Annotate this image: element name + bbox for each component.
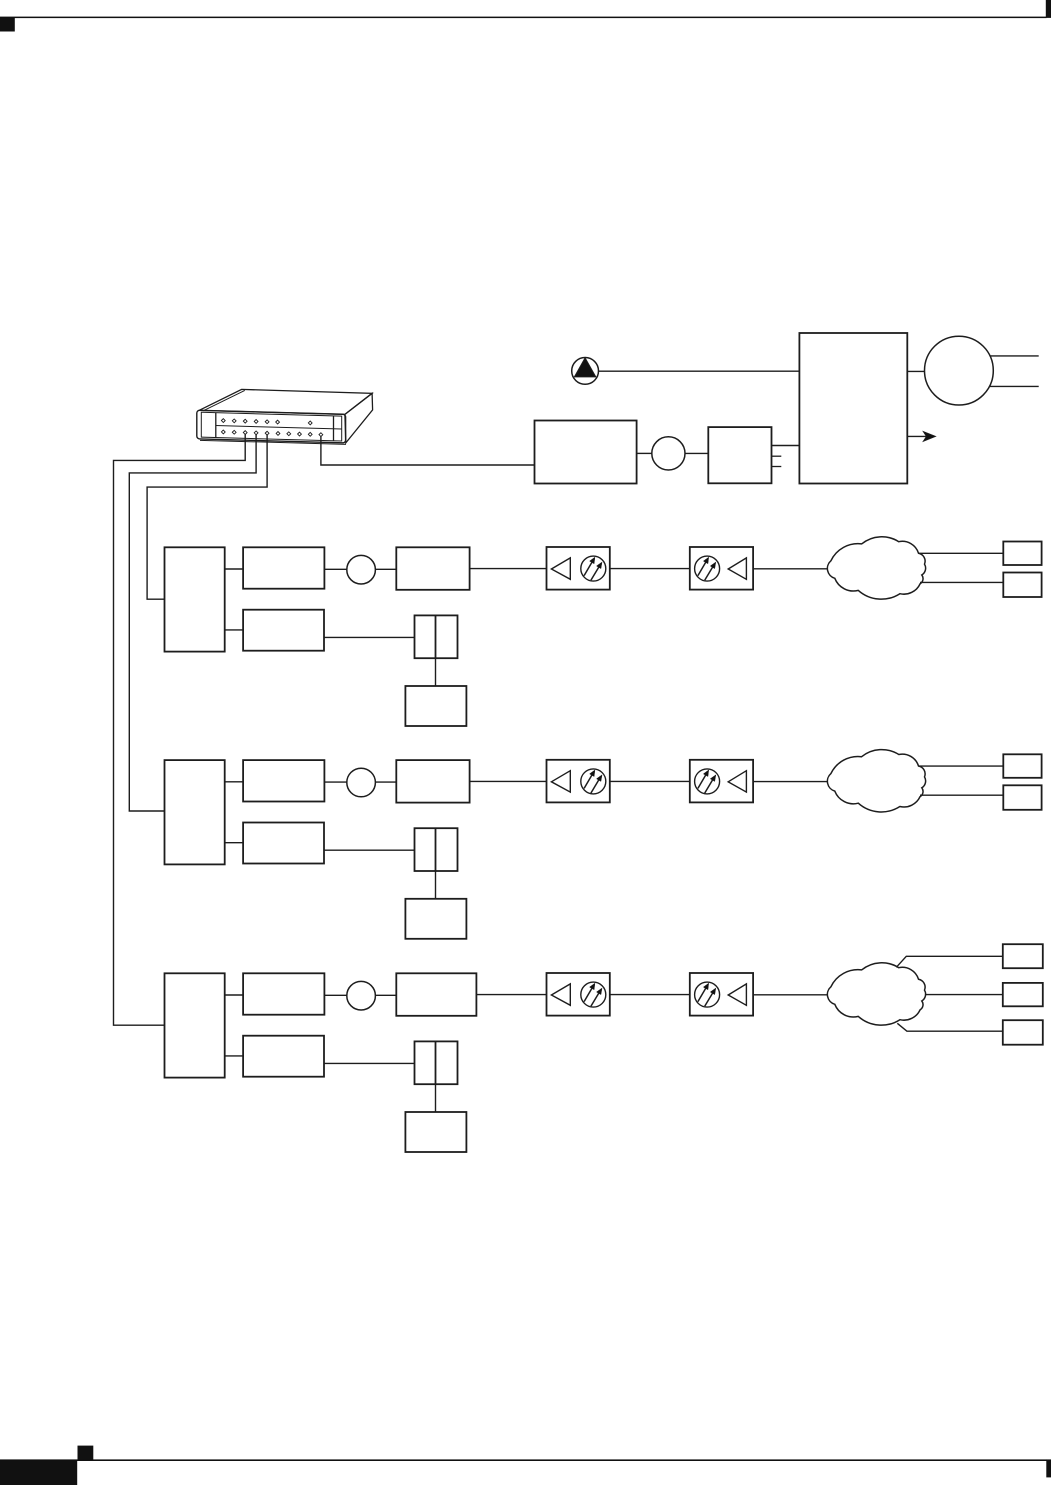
- device port diamond row1-2: [232, 419, 236, 423]
- row1 coax network cloud: [827, 537, 925, 599]
- splitter triangle: [728, 984, 746, 1005]
- device port diamond row2-6: [276, 432, 280, 436]
- wire port1 to downstream-group 3: [114, 434, 246, 1025]
- row2 diplexer dual box: [415, 828, 458, 871]
- row2 coax network cloud: [827, 750, 925, 812]
- row2 subscriber box 1: [1003, 754, 1041, 778]
- row1 wire cloud to subscriber box 1: [919, 552, 1004, 554]
- row3 amplifier box: [396, 973, 476, 1016]
- row2 wire splitter2 to cloud: [753, 781, 828, 783]
- row3 subscriber box 3: [1003, 1020, 1043, 1044]
- row1 wire splitter2 to cloud: [753, 568, 828, 570]
- header rule: [0, 17, 1047, 19]
- row1 wire hub to transmitter: [225, 568, 243, 570]
- splitter agc arrow 1: [584, 562, 592, 576]
- upconverter stub lead 2: [772, 466, 782, 468]
- splitter agc arrow 2: [591, 567, 599, 581]
- row2 amplifier box: [396, 760, 469, 803]
- device port diamond row1-3: [243, 419, 247, 423]
- row1 wire cloud to subscriber box 2: [920, 581, 1003, 583]
- splitter agc arrow 2: [591, 779, 599, 793]
- splitter agc circle: [581, 556, 606, 581]
- row2 wire cloud to subscriber box 2: [920, 794, 1003, 796]
- row3 wire cloud to subscriber box 2: [925, 994, 1003, 996]
- row1 distribution hub box: [165, 547, 225, 651]
- footer left crop square: [78, 1446, 94, 1460]
- device port diamond row2-5: [265, 431, 269, 435]
- row2 subscriber box 2: [1003, 785, 1041, 810]
- row3 wire cloud to subscriber box 3: [897, 1023, 1003, 1031]
- row3 wire transmitter to node circle: [324, 994, 346, 996]
- splitter agc circle: [695, 556, 720, 581]
- row1 wire diplexer to return box: [435, 658, 437, 686]
- row3 coax network cloud: [827, 963, 925, 1025]
- device port diamond row2-2: [232, 430, 236, 434]
- device front bezel: [201, 412, 341, 441]
- wire upconverter to combiner: [772, 445, 800, 447]
- modem circle: [925, 336, 994, 405]
- splitter triangle: [551, 771, 570, 792]
- splitter agc arrow 1: [698, 562, 706, 576]
- device chassis right face: [345, 393, 373, 443]
- row1 receiver box (lower): [243, 610, 324, 651]
- device port diamond row2-7: [287, 432, 291, 436]
- wire port4 to headend box: [321, 436, 535, 465]
- splitter agc circle: [695, 769, 720, 794]
- row2 transmitter box: [243, 760, 324, 801]
- row2 distribution hub box: [165, 760, 225, 864]
- modulator circle: [652, 437, 685, 470]
- row1 return-path box: [405, 686, 466, 726]
- row2 receiver box (lower): [243, 823, 324, 864]
- device port diamond row2-9: [308, 432, 312, 436]
- row1 wire node circle to amplifier box: [375, 568, 396, 570]
- row3 wire splitter1 to splitter2: [610, 994, 690, 996]
- device port diamond row1-5: [265, 420, 269, 424]
- row2 wire splitter1 to splitter2: [610, 780, 690, 782]
- satellite antenna symbol: [572, 358, 599, 385]
- device port diamond row2-3: [243, 431, 247, 435]
- splitter triangle: [551, 984, 570, 1005]
- device port diamond row2-10: [319, 433, 323, 437]
- row1 subscriber box 2: [1003, 573, 1041, 598]
- row1 subscriber box 1: [1003, 542, 1041, 566]
- row3 splitter box 2: [690, 973, 753, 1016]
- device chassis top face: [199, 389, 372, 414]
- row1 transmitter box: [243, 547, 324, 588]
- row1 node circle: [347, 555, 376, 584]
- splitter agc arrow 1: [698, 988, 706, 1002]
- splitter agc circle: [581, 982, 606, 1007]
- row2 return-path box: [405, 899, 466, 939]
- device port diamond row1-1: [221, 419, 225, 423]
- row2 wire hub to transmitter: [225, 781, 243, 783]
- splitter triangle: [728, 558, 746, 579]
- splitter triangle: [551, 558, 570, 579]
- device front left panel divider: [215, 413, 217, 438]
- row2 wire transmitter to node circle: [324, 781, 346, 783]
- row2 wire diplexer to return box: [435, 871, 437, 899]
- row1 diplexer dual box: [415, 615, 458, 658]
- upconverter stub lead 1: [772, 455, 782, 457]
- row3 transmitter box: [243, 973, 324, 1014]
- wire modulator to upconverter: [685, 452, 708, 454]
- row1 wire receiver to diplexer: [324, 636, 415, 638]
- wire receiver to modulator circle: [637, 452, 652, 454]
- row2 splitter box 1: [547, 760, 610, 803]
- device port diamond row1-6: [276, 420, 280, 424]
- splitter agc circle: [581, 769, 606, 794]
- device base edge line: [200, 440, 346, 444]
- row3 node circle: [347, 981, 376, 1010]
- row2 wire receiver to diplexer: [324, 849, 415, 851]
- wire antenna to combiner: [599, 370, 800, 372]
- row1 splitter box 1: [547, 547, 610, 590]
- row2 wire amplifier to splitter 1: [470, 780, 547, 782]
- wire combiner to modem circle: [907, 370, 924, 372]
- row3 subscriber box 2: [1003, 983, 1043, 1006]
- splitter agc arrow 1: [698, 774, 706, 788]
- device port diamond row2-4: [254, 431, 258, 435]
- splitter agc arrow 2: [591, 993, 599, 1007]
- satellite antenna filled triangle: [574, 358, 595, 377]
- row2 splitter box 2: [690, 760, 753, 803]
- combiner downstream arrowhead: [923, 431, 936, 441]
- header right crop bar: [1046, 0, 1051, 18]
- row1 wire hub to receiver: [225, 629, 243, 631]
- wire port2 to downstream-group 2: [129, 435, 256, 812]
- splitter agc arrow 1: [584, 988, 592, 1002]
- combiner box: [799, 333, 907, 484]
- footer rule: [0, 1459, 1047, 1461]
- row2 wire node circle to amplifier box: [375, 781, 396, 783]
- row1 diplexer divider: [435, 615, 437, 658]
- splitter agc arrow 2: [705, 779, 713, 793]
- headend receiver box: [535, 421, 637, 484]
- row1 splitter box 2: [690, 547, 753, 590]
- row3 subscriber box 1: [1003, 944, 1043, 968]
- upconverter box: [708, 427, 771, 483]
- combiner downstream arrow line: [907, 435, 927, 437]
- row3 wire receiver to diplexer: [324, 1062, 415, 1064]
- modem output line 1: [991, 355, 1039, 357]
- device port diamond row1-7: [308, 421, 312, 425]
- row2 wire hub to receiver: [225, 842, 243, 844]
- row1 wire transmitter to node circle: [324, 568, 346, 570]
- device front middle shelf line: [216, 426, 342, 429]
- row2 wire cloud to subscriber box 1: [919, 765, 1004, 767]
- footer left black block: [0, 1460, 77, 1485]
- row3 wire diplexer to return box: [435, 1084, 437, 1112]
- device port diamond row2-1: [221, 430, 225, 434]
- row3 wire amplifier to splitter 1: [476, 994, 546, 996]
- device port diamond row1-4: [254, 420, 258, 424]
- row2 diplexer divider: [435, 828, 437, 871]
- row3 distribution hub box: [165, 973, 225, 1077]
- splitter agc arrow 2: [705, 993, 713, 1007]
- splitter triangle: [728, 771, 746, 792]
- device port diamond row2-8: [298, 432, 302, 436]
- splitter agc arrow 2: [705, 567, 713, 581]
- splitter agc arrow 1: [584, 774, 592, 788]
- row1 amplifier box: [396, 547, 469, 590]
- row3 diplexer divider: [435, 1041, 437, 1084]
- row1 wire amplifier to splitter 1: [470, 568, 547, 570]
- device chassis top-left bevel line: [203, 390, 245, 410]
- row3 wire hub to transmitter: [225, 994, 243, 996]
- row3 wire hub to receiver: [225, 1055, 243, 1057]
- wire port3 to downstream-group 1: [147, 435, 267, 599]
- device front right panel divider: [333, 416, 335, 441]
- splitter agc circle: [695, 982, 720, 1007]
- device chassis front face: [197, 410, 346, 444]
- row3 receiver box (lower): [243, 1036, 324, 1077]
- row3 wire cloud to subscriber box 1: [896, 956, 1003, 967]
- row3 wire node circle to amplifier box: [375, 994, 396, 996]
- row3 diplexer dual box: [415, 1041, 458, 1084]
- row3 return-path box: [405, 1112, 466, 1152]
- row3 splitter box 1: [547, 973, 610, 1016]
- header left crop square: [0, 17, 15, 31]
- row3 wire splitter2 to cloud: [753, 994, 828, 996]
- row1 wire splitter1 to splitter2: [610, 568, 690, 570]
- footer right crop bar: [1046, 1459, 1051, 1477]
- row2 node circle: [347, 768, 376, 797]
- modem output line 2: [990, 385, 1039, 387]
